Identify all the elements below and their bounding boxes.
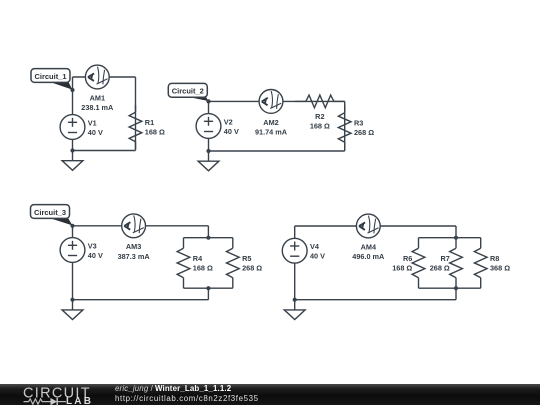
svg-text:R7: R7 — [440, 254, 449, 263]
voltage source V2 — [196, 114, 221, 139]
svg-text:268 Ω: 268 Ω — [354, 128, 374, 137]
svg-text:40 V: 40 V — [224, 127, 239, 136]
svg-text:Circuit_1: Circuit_1 — [34, 72, 66, 81]
node C3 — [206, 286, 210, 290]
wire — [419, 287, 481, 289]
svg-text:238.1 mA: 238.1 mA — [81, 103, 114, 112]
ammeter AM3 — [122, 214, 146, 238]
svg-text:168 Ω: 168 Ω — [310, 122, 330, 131]
wire — [184, 237, 233, 239]
voltage source V4 — [282, 238, 307, 263]
resistor R8 — [474, 238, 487, 289]
svg-text:168 Ω: 168 Ω — [392, 263, 412, 272]
wire — [184, 287, 233, 289]
voltage source V1 — [60, 115, 85, 140]
wire — [455, 226, 457, 238]
wire — [207, 226, 209, 238]
wire — [73, 76, 136, 78]
svg-text:268 Ω: 268 Ω — [430, 263, 450, 272]
svg-text:R1: R1 — [145, 118, 154, 127]
node G4 — [293, 298, 297, 302]
svg-text:40 V: 40 V — [88, 251, 103, 260]
svg-text:496.0 mA: 496.0 mA — [352, 252, 385, 261]
resistor R3 — [338, 106, 351, 150]
svg-text:AM2: AM2 — [263, 118, 278, 127]
node G2 — [206, 149, 210, 153]
wire — [207, 288, 209, 300]
footer bar — [0, 384, 540, 405]
svg-text:LAB: LAB — [66, 396, 93, 406]
ammeter AM4 — [356, 214, 380, 238]
svg-text:40 V: 40 V — [88, 128, 103, 137]
logo diode — [51, 398, 58, 405]
svg-text:368 Ω: 368 Ω — [490, 263, 510, 272]
svg-text:AM1: AM1 — [90, 93, 105, 102]
wire — [209, 100, 345, 102]
svg-text:R4: R4 — [193, 254, 203, 263]
svg-text:AM3: AM3 — [126, 242, 141, 251]
wire — [73, 299, 209, 301]
svg-text:Circuit_2: Circuit_2 — [172, 87, 204, 96]
node B1 — [206, 99, 210, 103]
svg-text:40 V: 40 V — [310, 252, 325, 261]
resistor R4 — [177, 238, 190, 289]
svg-text:V1: V1 — [88, 118, 97, 127]
node G3 — [70, 298, 74, 302]
svg-text:R8: R8 — [490, 254, 499, 263]
node C1 — [70, 224, 74, 228]
wire — [294, 263, 296, 300]
svg-text:R5: R5 — [242, 254, 251, 263]
logo resistor squiggle — [24, 399, 51, 404]
wire — [72, 226, 74, 238]
net label Circuit_3 — [31, 205, 73, 226]
wire — [344, 101, 346, 151]
node G1 — [70, 148, 74, 152]
resistor R6 — [412, 238, 425, 289]
node D3 — [454, 286, 458, 290]
wire — [73, 150, 136, 152]
ground — [62, 300, 83, 320]
wire — [73, 225, 209, 227]
wire — [294, 226, 296, 238]
ammeter AM1 — [85, 65, 109, 89]
node D2 — [454, 236, 458, 240]
svg-text:168 Ω: 168 Ω — [145, 127, 165, 136]
ground — [284, 300, 305, 320]
wire — [72, 139, 74, 150]
svg-text:AM4: AM4 — [361, 242, 377, 251]
node C2 — [206, 236, 210, 240]
footer credit line — [115, 384, 259, 403]
wire — [455, 288, 457, 300]
svg-text:387.3 mA: 387.3 mA — [118, 252, 151, 261]
wire — [419, 237, 481, 239]
svg-text:V3: V3 — [88, 241, 97, 250]
ground — [198, 151, 219, 171]
svg-text:R2: R2 — [315, 112, 324, 121]
svg-text:R6: R6 — [403, 254, 412, 263]
wire — [209, 150, 345, 152]
CircuitLab logo — [0, 384, 110, 406]
svg-text:V2: V2 — [224, 117, 233, 126]
resistor R1 — [129, 105, 142, 149]
wire — [135, 77, 137, 151]
wire — [208, 138, 210, 151]
wire — [72, 262, 74, 299]
node A1 — [70, 88, 74, 92]
resistor R2 — [295, 95, 345, 108]
wire — [72, 77, 74, 115]
svg-text:91.74 mA: 91.74 mA — [255, 128, 288, 137]
net label Circuit_2 — [168, 83, 208, 101]
wire — [295, 299, 456, 301]
svg-text:V4: V4 — [310, 242, 320, 251]
svg-text:268 Ω: 268 Ω — [242, 263, 262, 272]
resistor R5 — [226, 238, 239, 289]
resistor R7 — [450, 238, 463, 289]
svg-text:Circuit_3: Circuit_3 — [34, 208, 66, 217]
svg-text:168 Ω: 168 Ω — [193, 263, 213, 272]
net label Circuit_1 — [31, 69, 72, 90]
wire — [295, 225, 456, 227]
voltage source V3 — [60, 238, 85, 263]
svg-text:R3: R3 — [354, 118, 363, 127]
ammeter AM2 — [259, 90, 283, 114]
ground — [62, 151, 83, 171]
wire — [208, 101, 210, 113]
